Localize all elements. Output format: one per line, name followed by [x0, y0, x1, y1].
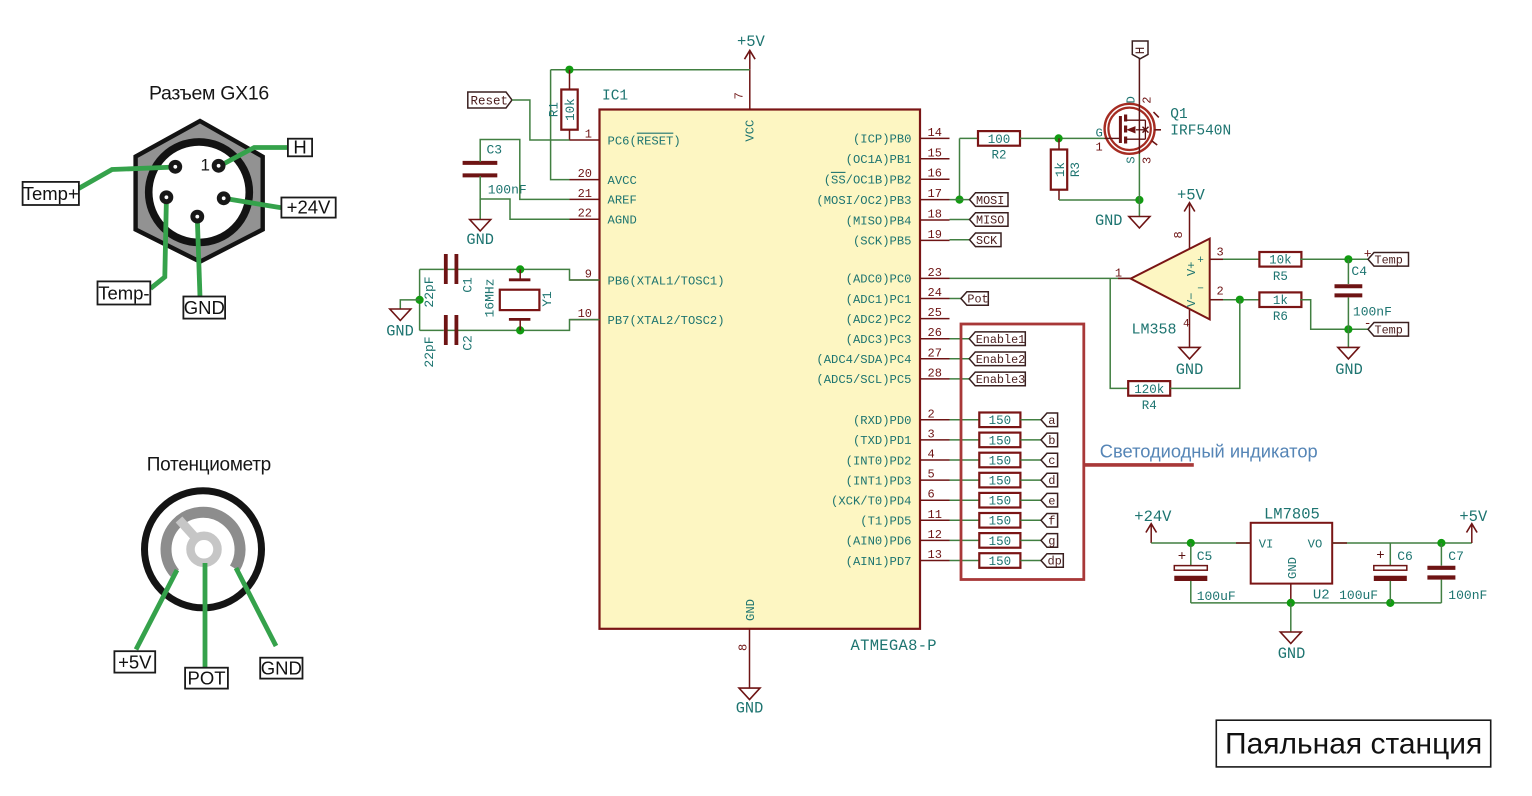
wire C4 net to gnd [1347, 329, 1349, 347]
svg-text:ATMEGA8-P: ATMEGA8-P [851, 637, 937, 655]
svg-text:GND: GND [1095, 212, 1123, 230]
resistor 150 (segment d) [979, 473, 1020, 489]
svg-text:LM358: LM358 [1132, 322, 1177, 339]
wire pot +5V [136, 570, 177, 650]
wire resistor to label d [1020, 479, 1041, 481]
svg-text:1: 1 [1096, 141, 1103, 155]
wire resistor to label dp [1020, 560, 1041, 562]
IC1 pin 13 (AIN1)PD7 [846, 548, 950, 569]
svg-text:23: 23 [928, 266, 942, 280]
global label a [1041, 413, 1058, 428]
IC1 pin 21 AREF [570, 187, 637, 208]
svg-text:U2: U2 [1313, 588, 1330, 604]
wire PB4 to MISO [950, 219, 970, 221]
svg-text:100nF: 100nF [488, 183, 527, 198]
IC1 pin 1 PC6(RESET) [570, 128, 681, 149]
svg-text:AREF: AREF [608, 194, 637, 208]
wire +24V to VI [1151, 542, 1251, 544]
svg-text:150: 150 [989, 475, 1012, 489]
svg-text:b: b [1048, 434, 1055, 448]
wire XTAL2 row [444, 320, 600, 331]
global label Enable1 [969, 332, 1025, 347]
wire R4 to pin2 [1170, 300, 1240, 389]
label +5V (pot) [114, 651, 155, 672]
wire R2 to gate [1020, 137, 1105, 139]
global label dp [1041, 554, 1063, 569]
connector pin +24V [217, 191, 231, 205]
wire pot POT [203, 563, 208, 668]
junction Y1 top [516, 265, 524, 273]
svg-text:GND: GND [744, 599, 758, 621]
wire XTAL1 left [420, 268, 444, 270]
resistor 150 (segment f) [979, 513, 1020, 529]
wire pin3 to R5 [1210, 258, 1260, 260]
wire R5 to +Temp [1300, 258, 1368, 260]
svg-text:17: 17 [928, 187, 942, 201]
potentiometer track arc [166, 512, 240, 573]
global label c [1041, 453, 1058, 468]
ground below C3 [466, 220, 494, 250]
global label SCK [970, 233, 1002, 248]
wire Reset to pin 1 [512, 100, 570, 140]
svg-text:AVCC: AVCC [608, 174, 637, 188]
svg-text:C4: C4 [1351, 264, 1367, 279]
svg-text:12: 12 [928, 528, 942, 542]
svg-text:GND: GND [466, 231, 494, 249]
IC1 pin 27 (ADC4/SDA)PC4 [816, 346, 949, 367]
svg-text:14: 14 [928, 126, 942, 140]
svg-text:(MOSI/OC2)PB3: (MOSI/OC2)PB3 [816, 194, 911, 208]
svg-text:Temp: Temp [1375, 324, 1403, 338]
svg-text:Reset: Reset [471, 94, 509, 108]
svg-text:+24V: +24V [287, 197, 331, 218]
svg-text:e: e [1048, 494, 1055, 508]
wire XTAL2 left [420, 329, 444, 331]
wire PD2 to resistor [950, 459, 980, 461]
svg-text:+5V: +5V [1177, 186, 1206, 204]
capacitor C1 22pF [422, 254, 476, 308]
svg-text:(OC1A)PB1: (OC1A)PB1 [846, 153, 912, 167]
svg-text:d: d [1048, 474, 1055, 488]
svg-text:(XCK/T0)PD4: (XCK/T0)PD4 [831, 495, 911, 509]
svg-text:(SCK)PB5: (SCK)PB5 [853, 235, 912, 249]
IC1 pin 17 (MOSI/OC2)PB3 [816, 187, 949, 208]
resistor 150 (segment b) [979, 433, 1020, 449]
global label -Temp [1364, 316, 1409, 338]
svg-text:Temp-: Temp- [98, 282, 149, 303]
wire PC5 to Enable3 [950, 378, 970, 380]
annotation red box [961, 324, 1084, 580]
IC1 pin 26 (ADC3)PC3 [846, 326, 950, 347]
svg-text:G: G [1096, 126, 1103, 140]
svg-text:150: 150 [989, 495, 1012, 509]
label GND (pot) [260, 657, 302, 678]
svg-text:Светодиодный индикатор: Светодиодный индикатор [1100, 441, 1318, 462]
svg-text:22: 22 [578, 207, 592, 221]
wire R3 to source/GND [1059, 199, 1139, 201]
svg-text:C2: C2 [461, 335, 476, 351]
svg-text:−: − [1197, 284, 1204, 296]
svg-text:15: 15 [928, 146, 942, 160]
wire PD7 to resistor [950, 560, 980, 562]
svg-text:8: 8 [737, 644, 751, 651]
svg-text:10k: 10k [564, 98, 578, 121]
global label f [1041, 514, 1058, 529]
resistor 150 (segment g) [979, 533, 1020, 549]
resistor 150 (segment e) [979, 493, 1020, 509]
IC1 pin 15 (OC1A)PB1 [846, 146, 950, 167]
svg-text:R6: R6 [1273, 310, 1288, 324]
svg-text:3: 3 [928, 427, 935, 441]
svg-text:25: 25 [928, 306, 942, 320]
wire resistor to label g [1020, 539, 1041, 541]
svg-text:19: 19 [928, 228, 942, 242]
wire resistor to label e [1020, 499, 1041, 501]
wire PD0 to resistor [950, 419, 980, 421]
junction C4 bottom [1344, 325, 1352, 333]
resistor R2 100 [978, 131, 1020, 163]
svg-text:22pF: 22pF [422, 276, 437, 307]
svg-text:2: 2 [1140, 97, 1154, 104]
junction R1 top [565, 66, 573, 74]
wire op-amp V+ supply [1189, 222, 1191, 249]
wire Temp- to pin [151, 199, 167, 289]
wire C3 bottom to AGND [480, 176, 569, 219]
wire VO to +5V [1332, 542, 1472, 544]
wire C3 top to AREF [480, 140, 569, 200]
connector pin GND [190, 210, 204, 224]
svg-text:GND: GND [1335, 361, 1363, 379]
svg-text:150: 150 [989, 434, 1012, 448]
svg-text:Enable1: Enable1 [976, 333, 1026, 347]
svg-text:+24V: +24V [1134, 508, 1172, 526]
wire R6 to -Temp [1300, 300, 1368, 330]
IC1 pin 11 (T1)PD5 [860, 508, 949, 529]
svg-text:IC1: IC1 [602, 89, 628, 105]
regulator U2 LM7805 [1251, 506, 1333, 604]
svg-text:100: 100 [988, 133, 1011, 147]
svg-text:C7: C7 [1448, 549, 1464, 564]
resistor R4 120k [1128, 381, 1170, 413]
svg-text:22pF: 22pF [422, 336, 437, 367]
svg-text:Temp: Temp [1375, 254, 1403, 268]
svg-text:MOSI: MOSI [976, 194, 1004, 208]
svg-text:Pot: Pot [967, 293, 988, 307]
svg-text:f: f [1048, 514, 1055, 528]
junction feedback [1236, 296, 1244, 304]
wire pot GND [236, 568, 276, 646]
svg-text:Temp+: Temp+ [23, 183, 79, 204]
capacitor C4 100nF [1335, 259, 1392, 329]
global label b [1041, 433, 1058, 448]
svg-text:c: c [1048, 454, 1055, 468]
svg-text:GND: GND [1286, 557, 1300, 579]
ground op-amp [1176, 347, 1204, 379]
wire GND to pin [197, 218, 200, 297]
svg-text:Enable2: Enable2 [976, 353, 1026, 367]
svg-text:8: 8 [1172, 231, 1186, 238]
svg-text:GND: GND [184, 297, 225, 318]
svg-text:3: 3 [1140, 157, 1154, 164]
ground below IC1 [736, 688, 764, 718]
IC1 pin 20 AVCC [570, 167, 637, 188]
wire AVCC drop [551, 70, 570, 180]
crystal Y1 16MHz [483, 269, 556, 330]
capacitor C6 100uF [1339, 543, 1413, 603]
svg-text:150: 150 [989, 454, 1012, 468]
svg-text:R3: R3 [1069, 162, 1083, 177]
svg-text:+: + [1376, 548, 1384, 564]
svg-text:1: 1 [585, 128, 592, 142]
svg-text:+5V: +5V [118, 651, 152, 672]
IC1 pin 9 PB6(XTAL1/TOSC1) [570, 268, 725, 289]
svg-text:GND: GND [736, 700, 764, 718]
IC1 pin 4 (INT0)PD2 [846, 448, 950, 469]
IC1 pin 22 AGND [570, 207, 637, 228]
power +5V (op-amp) [1177, 186, 1206, 222]
svg-text:(ADC0)PC0: (ADC0)PC0 [846, 273, 912, 287]
global label Reset [468, 92, 512, 108]
connector pin Temp- [160, 190, 174, 204]
svg-text:PC6(RESET): PC6(RESET) [608, 134, 681, 148]
wire resistor to label c [1020, 459, 1041, 461]
svg-text:1: 1 [201, 156, 210, 175]
U2 VO pin stub [1332, 542, 1347, 544]
svg-text:28: 28 [928, 366, 942, 380]
svg-text:13: 13 [928, 548, 942, 562]
svg-text:(SS/OC1B)PB2: (SS/OC1B)PB2 [824, 174, 912, 188]
global label MOSI [970, 193, 1009, 208]
svg-text:150: 150 [989, 555, 1012, 569]
global label MISO [970, 213, 1009, 228]
svg-text:150: 150 [989, 515, 1012, 529]
svg-text:Q1: Q1 [1170, 107, 1187, 123]
wire PC4 to Enable2 [950, 358, 970, 360]
label Temp- [98, 281, 151, 304]
svg-text:150: 150 [989, 535, 1012, 549]
svg-text:2: 2 [1217, 285, 1224, 299]
power +5V (VCC top) [737, 33, 766, 69]
IC1 pin 25 (ADC2)PC2 [846, 306, 950, 327]
svg-text:GND: GND [1278, 645, 1306, 663]
svg-text:(INT1)PD3: (INT1)PD3 [846, 474, 912, 488]
global label d [1041, 473, 1058, 488]
IC1 pin 3 (TXD)PD1 [853, 427, 950, 448]
IC1 pin 23 (ADC0)PC0 [846, 266, 950, 287]
svg-text:R1: R1 [548, 102, 562, 117]
op-amp pin 2 stub [1210, 299, 1223, 301]
title box "Паяльная станция" [1216, 720, 1490, 767]
svg-text:2: 2 [928, 407, 935, 421]
resistor 150 (segment c) [979, 453, 1020, 469]
wire PD1 to resistor [950, 439, 980, 441]
resistor R5 10k [1259, 252, 1301, 284]
svg-text:(INT0)PD2: (INT0)PD2 [846, 454, 912, 468]
wire pin2 to R6 [1210, 299, 1260, 301]
svg-text:(ADC2)PC2: (ADC2)PC2 [846, 313, 912, 327]
annotation callout line [1084, 463, 1194, 467]
capacitor C2 22pF [422, 315, 476, 368]
global label e [1041, 493, 1058, 508]
resistor 150 (segment a) [979, 413, 1020, 429]
wire PD5 to resistor [950, 519, 980, 521]
svg-text:PB7(XTAL2/TOSC2): PB7(XTAL2/TOSC2) [608, 314, 725, 328]
wire source gnd stub [1138, 200, 1140, 217]
label GND (connector) [183, 297, 225, 319]
power +24V [1134, 508, 1172, 543]
resistor R3 1k [1051, 150, 1083, 190]
svg-text:(MISO)PB4: (MISO)PB4 [846, 214, 912, 228]
wire to crystal ground [400, 300, 419, 309]
wire PD4 to resistor [950, 499, 980, 501]
svg-text:GND: GND [261, 657, 302, 678]
svg-text:(ADC5/SCL)PC5: (ADC5/SCL)PC5 [816, 373, 911, 387]
op-amp pin 3 stub [1210, 258, 1223, 260]
svg-text:+5V: +5V [737, 33, 766, 51]
wire +24V to pin [224, 198, 282, 207]
transistor Q1 IRF540N [1096, 58, 1162, 201]
ground below Q1 [1095, 212, 1150, 230]
svg-text:(T1)PD5: (T1)PD5 [860, 515, 911, 529]
wire C3 to ground [479, 199, 481, 220]
label Temp+ [23, 182, 79, 205]
wire U2 GND pin [1290, 584, 1292, 603]
wire H to pin [219, 148, 289, 167]
svg-text:R4: R4 [1142, 399, 1157, 413]
IC1 pin 12 (AIN0)PD6 [846, 528, 950, 549]
connector pin Temp+ [168, 160, 182, 174]
ground PSU [1278, 632, 1306, 663]
svg-text:100nF: 100nF [1353, 304, 1392, 319]
svg-text:Паяльная станция: Паяльная станция [1225, 728, 1482, 761]
svg-text:+5V: +5V [1459, 508, 1488, 526]
op-amp U1 LM358 [1131, 239, 1210, 339]
svg-text:(ADC4/SDA)PC4: (ADC4/SDA)PC4 [816, 353, 911, 367]
svg-text:LM7805: LM7805 [1264, 506, 1320, 524]
svg-text:R5: R5 [1273, 270, 1288, 284]
svg-text:10k: 10k [1269, 254, 1292, 268]
svg-text:MISO: MISO [976, 214, 1004, 228]
svg-text:AGND: AGND [608, 214, 637, 228]
global label Enable2 [969, 352, 1025, 367]
junction C5 top [1187, 539, 1195, 547]
junction C7 top [1437, 539, 1445, 547]
svg-text:H: H [293, 137, 306, 158]
IC1 pin 24 (ADC1)PC1 [846, 286, 950, 307]
svg-text:+: + [1178, 549, 1186, 565]
svg-text:S: S [1124, 156, 1138, 163]
IC1 pin 16 (SS/OC1B)PB2 [824, 167, 950, 188]
svg-text:1k: 1k [1273, 294, 1288, 308]
wire PB3 junction drop [959, 138, 961, 199]
IC1 pin 19 (SCK)PB5 [853, 228, 950, 249]
IC1 pin 8 GND [737, 599, 758, 688]
global label +Temp [1364, 246, 1409, 267]
svg-text:D: D [1124, 96, 1138, 103]
svg-text:Y1: Y1 [540, 291, 555, 307]
junction crystal gnd [416, 296, 424, 304]
label POT [185, 667, 228, 688]
label H [288, 137, 312, 158]
svg-text:1k: 1k [1054, 162, 1068, 177]
svg-text:Потенциометр: Потенциометр [147, 455, 271, 476]
svg-text:100uF: 100uF [1339, 588, 1378, 603]
wire crystal gnd drop [419, 269, 421, 330]
global label g [1041, 534, 1058, 549]
junction C4 top [1344, 255, 1352, 263]
wire PD6 to resistor [950, 539, 980, 541]
capacitor C5 100uF [1174, 543, 1235, 604]
wire ground rail [1191, 602, 1442, 604]
potentiometer outer ring [145, 491, 262, 608]
svg-text:Enable3: Enable3 [976, 373, 1026, 387]
svg-text:27: 27 [928, 346, 942, 360]
label +24V [281, 197, 335, 218]
svg-text:POT: POT [187, 667, 225, 688]
svg-text:20: 20 [578, 167, 592, 181]
junction Y1 bottom [516, 326, 524, 334]
svg-text:(AIN1)PD7: (AIN1)PD7 [846, 555, 912, 569]
wire feedback to R4 [1110, 278, 1128, 388]
svg-text:6: 6 [928, 488, 935, 502]
wire XTAL1 row [444, 269, 600, 280]
wire op-amp V- to gnd [1189, 310, 1191, 347]
junction C6 bottom [1386, 599, 1394, 607]
svg-text:PB6(XTAL1/TOSC1): PB6(XTAL1/TOSC1) [608, 274, 725, 288]
ground near crystal [386, 309, 414, 341]
wire PC0 to op-amp [950, 277, 1131, 279]
wire Temp+ to pin [76, 167, 176, 190]
wire PB5 to SCK [950, 239, 970, 241]
resistor R1 10k [548, 90, 579, 130]
svg-text:16MHz: 16MHz [483, 278, 498, 317]
IC1 pin 28 (ADC5/SCL)PC5 [816, 366, 949, 387]
wire PC3 to Enable1 [950, 338, 970, 340]
wire gnd symbol stub [1290, 603, 1292, 632]
svg-text:26: 26 [928, 326, 942, 340]
svg-text:Разъем GX16: Разъем GX16 [149, 83, 269, 105]
IC1 pin 18 (MISO)PB4 [846, 208, 950, 229]
svg-text:100nF: 100nF [1448, 588, 1487, 603]
potentiometer wiper shaft [179, 520, 197, 540]
wire R2 input from PB3 [960, 137, 979, 139]
wire PC1 to Pot [950, 298, 961, 300]
global label Pot [961, 292, 989, 307]
svg-text:5: 5 [928, 468, 935, 482]
svg-text:1: 1 [1115, 267, 1122, 281]
junction PB3 MOSI [955, 196, 963, 204]
svg-text:a: a [1048, 414, 1055, 428]
svg-text:100uF: 100uF [1197, 589, 1236, 604]
capacitor C7 100nF [1427, 543, 1487, 603]
svg-text:(TXD)PD1: (TXD)PD1 [853, 434, 912, 448]
svg-text:C6: C6 [1397, 549, 1413, 564]
svg-text:(ADC1)PC1: (ADC1)PC1 [846, 293, 912, 307]
wire resistor to label b [1020, 439, 1041, 441]
junction U2 gnd [1287, 599, 1295, 607]
svg-text:(ICP)PB0: (ICP)PB0 [853, 133, 912, 147]
svg-text:VCC: VCC [744, 120, 758, 142]
wire resistor to label a [1020, 419, 1041, 421]
svg-text:g: g [1048, 535, 1055, 549]
global label Enable3 [969, 372, 1025, 387]
svg-text:dp: dp [1047, 555, 1061, 569]
svg-text:H: H [1134, 47, 1148, 55]
global label H [1132, 41, 1148, 59]
svg-text:16: 16 [928, 167, 942, 181]
power +5V (output) [1459, 508, 1488, 543]
svg-text:C5: C5 [1197, 549, 1213, 564]
